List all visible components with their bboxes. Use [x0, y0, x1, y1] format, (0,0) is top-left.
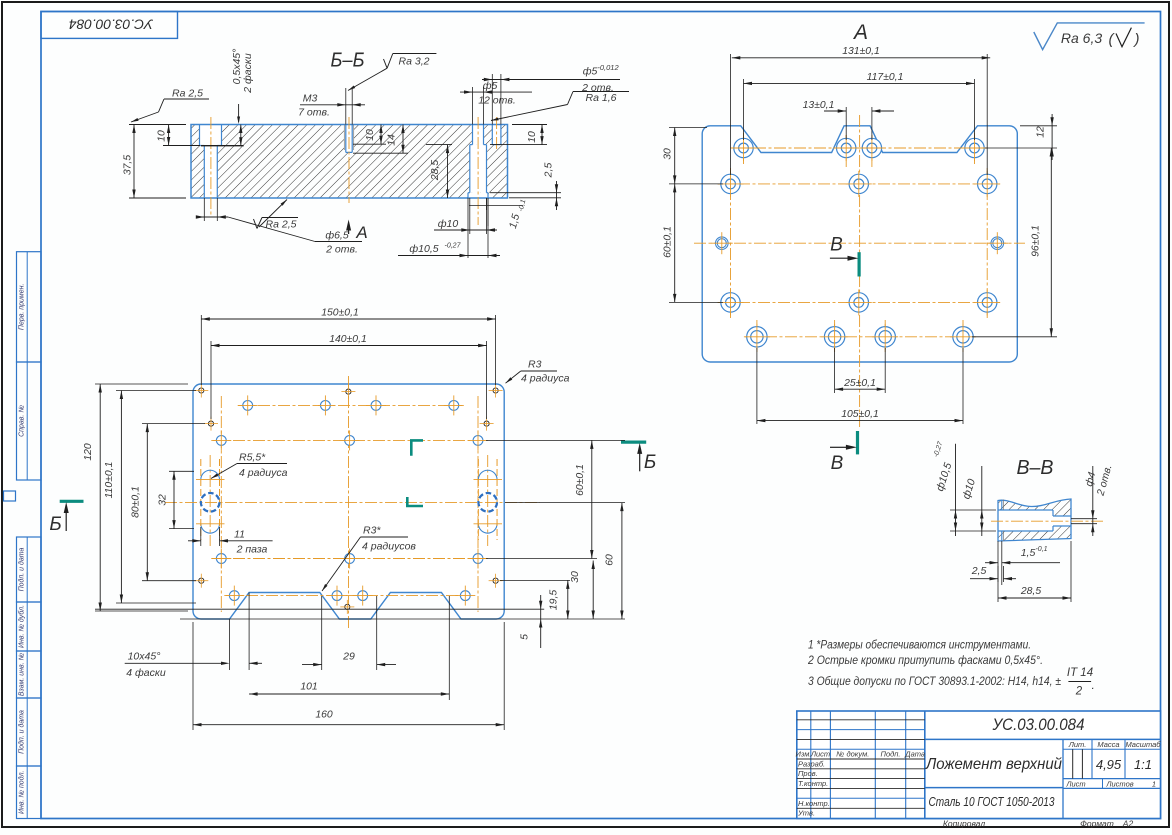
svg-text:Б: Б	[644, 452, 656, 473]
svg-text:110±0,1: 110±0,1	[104, 462, 115, 499]
dimension 19,5 right of main view	[567, 580, 569, 619]
svg-text:Ra 2,5: Ra 2,5	[172, 88, 203, 100]
svg-text:Т.контр.: Т.контр.	[798, 779, 828, 788]
svg-text:117±0,1: 117±0,1	[867, 72, 904, 83]
svg-text:4 радиуса: 4 радиуса	[521, 373, 570, 385]
left stamp box Инв. № дубл.	[17, 602, 42, 651]
svg-text:4 радиуса: 4 радиуса	[239, 467, 288, 479]
svg-text:30: 30	[663, 148, 674, 160]
hole note ф6,5 2 отв.	[203, 198, 205, 221]
right slot (паз 11) arcs	[478, 470, 497, 479]
svg-text:Взам. инв. №: Взам. инв. №	[19, 652, 26, 696]
svg-text:160: 160	[315, 710, 333, 721]
left stamp box Подп. и дата (lower)	[17, 698, 42, 766]
dimension 32 left	[169, 470, 194, 472]
binding center mark	[4, 491, 16, 501]
dimension 30 right of main view	[592, 561, 594, 620]
svg-text:4 радиусов: 4 радиусов	[362, 541, 416, 553]
svg-text:Инв. № подл.: Инв. № подл.	[18, 770, 26, 813]
right hole ф10,5 / ф10 outline	[472, 125, 474, 145]
dimension 60 right of main view	[621, 503, 623, 619]
svg-text:10: 10	[157, 130, 168, 142]
svg-text:Изм.: Изм.	[796, 750, 812, 759]
svg-text:2: 2	[1075, 686, 1083, 698]
svg-text:32: 32	[158, 494, 169, 506]
svg-text:10х45°: 10х45°	[128, 651, 161, 663]
dimension 29 bottom	[321, 596, 323, 670]
svg-text:-0,27: -0,27	[445, 243, 462, 250]
svg-text:Лист: Лист	[1065, 779, 1085, 788]
view А row5 holes (ф6,5 c'bore)	[747, 327, 767, 347]
svg-text:.: .	[1092, 678, 1095, 692]
svg-text:R3*: R3*	[363, 525, 381, 537]
dimension 131±0,1	[730, 54, 732, 175]
main view 3-hole row upper	[216, 436, 226, 446]
notch radius note R3* 4 радиусов	[361, 536, 409, 538]
svg-text:Формат: Формат	[1080, 819, 1114, 829]
section mark В lower	[856, 431, 859, 454]
section mark Б left	[60, 500, 84, 503]
svg-text:1,5: 1,5	[1021, 547, 1036, 559]
svg-text:28,5: 28,5	[1020, 586, 1041, 597]
left stamp box Инв. № подл.	[17, 766, 42, 819]
svg-text:Б: Б	[49, 514, 61, 535]
roughness Ra 2,5 upper left	[164, 98, 209, 100]
svg-text:2 фаски: 2 фаски	[242, 53, 254, 94]
svg-text:ф10,5: ф10,5	[409, 243, 438, 255]
dimension 60±0,1 view А	[669, 301, 723, 303]
name cell Ложемент верхний	[925, 787, 1063, 789]
section mark В upper	[857, 252, 860, 276]
dimension 150±0,1	[200, 315, 202, 385]
svg-text:4 фаски: 4 фаски	[126, 667, 166, 679]
dimension 2,5 right	[490, 192, 561, 194]
svg-text:37,5: 37,5	[123, 155, 134, 175]
left stamp box Перв. примен.	[17, 252, 42, 362]
row center lines view А	[734, 147, 985, 149]
svg-text:1: 1	[1152, 779, 1156, 788]
dimension 28,5 right hole depth	[426, 144, 452, 146]
svg-text:2 паза: 2 паза	[236, 544, 268, 556]
svg-text:Дата: Дата	[904, 750, 925, 759]
svg-text:Копировал: Копировал	[943, 819, 985, 829]
dimension 1,5 -0,1 of В–В	[997, 541, 999, 585]
svg-text:140±0,1: 140±0,1	[329, 334, 366, 345]
svg-text:ф5: ф5	[583, 66, 598, 78]
main view row ф5 holes (top)	[243, 401, 253, 411]
left slot ф10 circle (dashed blue)	[201, 493, 220, 512]
svg-text:96±0,1: 96±0,1	[1031, 225, 1042, 257]
dimension 2,5 of В–В	[997, 566, 999, 582]
svg-text:Ra 6,3: Ra 6,3	[1061, 30, 1102, 46]
main view long center lines	[165, 502, 540, 504]
section Б–Б hatched bar body	[191, 125, 508, 199]
svg-text:25±0,1: 25±0,1	[843, 378, 876, 389]
svg-text:105±0,1: 105±0,1	[841, 409, 878, 420]
roughness Ra 3,2 with leader	[393, 53, 437, 55]
svg-text:60±0,1: 60±0,1	[575, 464, 586, 496]
dimension ф10 below	[469, 198, 471, 234]
dimension 11 slot width	[200, 527, 202, 546]
view А row1 holes on tabs (ф5 c'bore ф10)	[734, 138, 753, 157]
section В–В ф4 hole lines	[1071, 518, 1097, 520]
section Б–Б outline	[191, 125, 508, 199]
section mark Б right	[621, 441, 646, 444]
dimension 10 thread depth	[353, 143, 386, 145]
svg-text:ф5: ф5	[483, 80, 498, 92]
general roughness Ra 6,3	[1034, 23, 1145, 50]
main view row center lines	[238, 404, 462, 406]
svg-text:Листов: Листов	[1105, 779, 1133, 788]
svg-text:Масса: Масса	[1097, 740, 1119, 749]
view А row2 holes	[721, 174, 740, 193]
svg-text:-0,1: -0,1	[1035, 546, 1047, 553]
svg-text:2 Острые кромки притупить фас: 2 Острые кромки притупить фасками 0,5х45…	[807, 653, 1043, 667]
M3 tapped hole outline	[345, 125, 347, 153]
M3 hole center line	[348, 117, 350, 203]
svg-text:28,5: 28,5	[430, 160, 441, 181]
roughness Ra 1,6 with leader	[573, 91, 629, 93]
dimension 80±0,1 left	[142, 423, 205, 425]
svg-text:Сталь 10 ГОСТ 1050-2013: Сталь 10 ГОСТ 1050-2013	[929, 794, 1056, 809]
main view 3-hole row lower	[216, 554, 226, 564]
svg-text:10: 10	[527, 131, 538, 143]
svg-text:Утв.: Утв.	[797, 809, 815, 818]
view А plate outline with top notches	[702, 126, 1017, 362]
svg-text:В–В: В–В	[1017, 457, 1054, 479]
left hole ф6,5 with counterbore outline	[199, 125, 201, 146]
dimension 96±0,1 right	[972, 336, 1057, 338]
svg-text:5: 5	[519, 634, 531, 640]
svg-text:Б–Б: Б–Б	[331, 50, 365, 72]
dimension ф4 2 отв. of В–В	[1092, 466, 1094, 536]
svg-text:Подп. и дата: Подп. и дата	[18, 547, 26, 591]
svg-text:): )	[1133, 31, 1140, 48]
svg-text:2,5: 2,5	[543, 163, 555, 179]
svg-text:А: А	[355, 223, 367, 242]
corner radius note R3 4 радиуса	[521, 370, 557, 372]
top-left document number box	[41, 12, 178, 39]
title block outline	[797, 711, 1161, 819]
svg-text:80±0,1: 80±0,1	[131, 486, 142, 518]
dimension ф10,5 -0,27 below	[467, 198, 469, 258]
section plane bend mark lower (teal)	[407, 497, 423, 506]
svg-text:ф6,5: ф6,5	[325, 230, 349, 242]
main view column center lines	[220, 396, 222, 612]
svg-text:Ложемент верхний: Ложемент верхний	[925, 756, 1062, 773]
section В–В bore outline	[998, 509, 1053, 511]
svg-text:IT 14: IT 14	[1067, 667, 1093, 679]
left slot side lines (orange dashed)	[200, 459, 202, 540]
dimension ф10,5 -0,27 of В–В	[950, 509, 996, 511]
svg-text:131±0,1: 131±0,1	[842, 46, 879, 57]
ф5 precise hole center line	[496, 117, 498, 151]
dimension 1,5 -0,1 step	[469, 205, 523, 207]
svg-text:7 отв.: 7 отв.	[298, 107, 330, 119]
left stamp box Взам. инв. №	[17, 651, 42, 698]
svg-text:В: В	[831, 453, 844, 474]
svg-text:Подп.: Подп.	[881, 750, 901, 759]
dimension 28,5 of В–В	[997, 585, 999, 602]
svg-text:14: 14	[387, 134, 398, 146]
dimension 10 right (step depth)	[512, 124, 547, 126]
thread note М3 7 отв.	[300, 104, 365, 106]
svg-text:УС.03.00.084: УС.03.00.084	[992, 715, 1085, 734]
svg-text:Инв. № дубл.: Инв. № дубл.	[18, 605, 26, 648]
лит масса масштаб cells	[1062, 739, 1064, 818]
svg-text:УС.03.00.084: УС.03.00.084	[69, 16, 154, 32]
chamfer note 10х45° 4 фаски	[229, 619, 231, 670]
hole clearances (white) in section Б–Б	[200, 125, 222, 146]
svg-text:№ докум.: № докум.	[836, 750, 869, 759]
svg-text:Масштаб: Масштаб	[1125, 740, 1161, 749]
right hole center line	[477, 117, 479, 225]
svg-text:30: 30	[569, 571, 581, 583]
section В–В hatched body	[998, 499, 1071, 541]
title block left table verticals	[810, 711, 812, 819]
dimension 14 drill depth	[353, 152, 408, 154]
svg-text:3 Общие допуски по ГОСТ 30893: 3 Общие допуски по ГОСТ 30893.1-2002: Н1…	[808, 674, 1061, 688]
section В–В left rim lines	[1001, 500, 1003, 511]
svg-text:13±0,1: 13±0,1	[803, 100, 835, 111]
svg-text:R5,5*: R5,5*	[239, 452, 266, 464]
svg-text:Подп. и дата: Подп. и дата	[18, 710, 26, 754]
left stamp box Подп. и дата (upper)	[17, 537, 42, 602]
left hole center line	[210, 117, 212, 216]
svg-text:Ra 1,6: Ra 1,6	[586, 92, 617, 104]
dimension 10 left (counterbore depth)	[163, 145, 200, 147]
svg-text:1 *Размеры обеспечиваются инс: 1 *Размеры обеспечиваются инструментами.	[808, 638, 1031, 652]
dimension ф10 of В–В	[981, 466, 983, 536]
svg-text:М3: М3	[303, 93, 318, 105]
svg-text:Перв. примен.: Перв. примен.	[19, 284, 26, 331]
M3 threaded holes (7 отв.)	[199, 388, 204, 393]
svg-text:10: 10	[365, 129, 376, 141]
svg-text:Лист: Лист	[810, 750, 830, 759]
svg-text:60: 60	[605, 554, 616, 566]
slot radius note R5,5* 4 радиуса	[237, 463, 287, 465]
svg-text:101: 101	[300, 682, 317, 693]
dimension 25±0,1 below	[834, 348, 836, 393]
extension lines right side of main view	[486, 439, 625, 441]
svg-text:ф10: ф10	[438, 218, 459, 230]
dimension 13±0,1	[845, 107, 847, 140]
svg-text:120: 120	[83, 443, 94, 461]
section plane bend mark upper (teal)	[411, 440, 423, 455]
svg-text:Пров.: Пров.	[798, 769, 818, 778]
svg-text:Лит.: Лит.	[1068, 740, 1087, 749]
svg-text:Н.контр.: Н.контр.	[798, 799, 830, 808]
main view plate outline with bottom notches	[193, 384, 504, 619]
svg-text:29: 29	[342, 651, 355, 663]
dimension 5 right of main view	[540, 595, 542, 648]
dimension 12 right	[1020, 125, 1057, 127]
ф5 precise hole outline	[491, 125, 493, 145]
left slot (паз 11) arcs	[201, 470, 220, 479]
right slot ф10 circle (dashed blue)	[478, 493, 497, 512]
dimension 30 view А	[669, 127, 707, 129]
svg-text:-0,012: -0,012	[597, 63, 619, 72]
dimension 117±0,1	[743, 79, 745, 140]
roughness Ra 2,5 lower	[259, 200, 287, 228]
svg-text:В: В	[830, 235, 843, 256]
dimension 160 bottom	[192, 622, 194, 730]
svg-text:12: 12	[1036, 126, 1047, 138]
view А long center lines	[694, 242, 1025, 244]
title block left table rows	[797, 719, 925, 721]
svg-text:А: А	[852, 21, 868, 44]
svg-text:60±0,1: 60±0,1	[663, 226, 674, 258]
лит sub cells	[1072, 749, 1074, 778]
document number cell УС.03.00.084	[925, 738, 1161, 740]
view А side dowel holes ф5-0,012	[716, 237, 729, 250]
hole note ф5 12 отв.	[460, 91, 532, 93]
column center lines view А	[743, 133, 745, 164]
dimension 37,5 left	[129, 124, 186, 126]
svg-text:2 отв.: 2 отв.	[325, 244, 358, 256]
dimension 140±0,1	[210, 341, 212, 419]
dimension 105±0,1 below	[756, 348, 758, 424]
svg-text:150±0,1: 150±0,1	[321, 308, 358, 319]
hole note ф5 -0,012 2 отв.	[482, 79, 620, 81]
svg-text:Справ. №: Справ. №	[19, 405, 26, 437]
svg-text:1:1: 1:1	[1134, 757, 1152, 772]
svg-text:19,5: 19,5	[548, 590, 560, 611]
svg-text:Разраб.: Разраб.	[798, 759, 825, 768]
svg-text:А2: А2	[1122, 819, 1134, 829]
section В–В center line	[991, 520, 1103, 522]
left stamp box Справ. №	[17, 362, 42, 480]
right slot side lines (orange dashed)	[477, 459, 479, 540]
dimension 101 bottom	[448, 596, 450, 700]
svg-text:R3: R3	[528, 359, 542, 371]
лист листов row	[1102, 779, 1104, 789]
view direction arrow А	[348, 226, 350, 234]
view А row4 holes	[721, 293, 740, 312]
dimension 110±0,1 left	[116, 390, 196, 392]
svg-text:11: 11	[234, 529, 245, 541]
counterbore depth reference line and tick	[201, 145, 244, 147]
svg-text:Ra 3,2: Ra 3,2	[399, 56, 430, 68]
svg-text:4,95: 4,95	[1096, 757, 1122, 772]
main view bottom tab holes	[229, 591, 239, 601]
dimension 60±0,1 right of main view	[591, 440, 593, 558]
dimension 120 left	[95, 383, 188, 385]
svg-text:2,5: 2,5	[971, 565, 987, 577]
